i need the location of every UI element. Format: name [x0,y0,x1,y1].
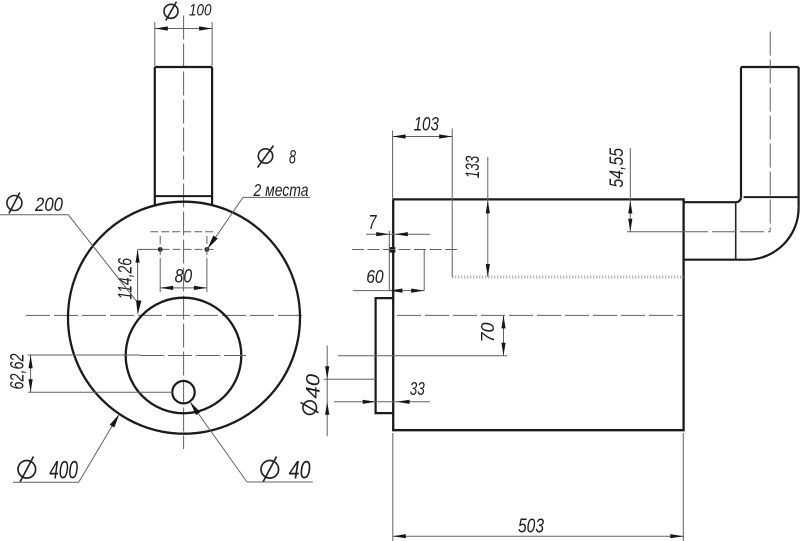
centerline vertical of left view [183,16,185,450]
svg-text:80: 80 [175,267,193,288]
vertical pipe top edge [741,66,799,68]
svg-text:40: 40 [289,456,311,484]
elbow centerline horizontal [684,231,770,233]
dimension D100 extension lines [154,22,156,66]
elbow outer arc [747,208,799,260]
flange hole square [389,247,395,253]
dimension 54.55 [629,148,631,232]
dimension 80 line [160,287,207,289]
svg-text:62,62: 62,62 [8,353,29,389]
boss flange side view [376,298,394,413]
boss circle D200 [126,298,242,414]
dimension 33 arrows [363,400,376,404]
holes D8 (2 places) [158,247,163,252]
svg-text:400: 400 [49,456,78,484]
leader D40 left view [247,481,313,483]
dimension 62.62 extension lines [28,354,140,356]
extension line 54.55 bottom [627,231,684,233]
svg-text:100: 100 [189,2,212,20]
body big circle D400 [68,202,300,434]
dimension 60 [353,290,424,292]
svg-text:40: 40 [304,374,325,399]
dimension 62.62 line [30,355,32,392]
extension line hole to 60 [388,231,390,291]
leader D200 [0,214,68,216]
top pipe weld seam [155,195,212,197]
label D40 right view rotated [301,374,325,415]
dimension 7 [366,233,430,235]
flange hole axis dashed [352,249,460,251]
dimension 103 [392,131,394,200]
body outline [393,199,684,430]
stub weld seam [735,202,737,260]
vertical pipe left edge [740,67,742,197]
elbow centerline vertical [769,32,771,232]
svg-text:70: 70 [478,323,498,343]
svg-text:103: 103 [414,115,440,136]
leader D400 [13,481,79,483]
label D400 [18,457,36,483]
svg-text:503: 503 [518,514,544,537]
svg-text:7: 7 [369,212,378,234]
outlet stub bottom edge [684,259,747,261]
svg-text:200: 200 [34,194,63,216]
label D200 [7,193,22,214]
label D40 left view [261,457,279,483]
dimension 133 [487,157,489,277]
label D100 [164,2,178,21]
svg-text:133: 133 [463,155,484,178]
dimension D100 line [155,28,212,30]
outlet stub top edge with fillet [684,197,741,202]
centerline horizontal of big circle [26,314,304,316]
svg-text:8: 8 [289,147,296,168]
svg-text:60: 60 [366,267,384,287]
svg-text:33: 33 [410,379,425,399]
dimension 114.26 line [137,250,139,302]
top pipe left side [154,67,156,205]
top pipe right side [211,67,213,204]
vertical pipe right edge [797,67,799,208]
holes crosshair dashes [150,231,213,233]
dimension D40 right view line [326,346,328,437]
dimension D40 right view extension lines [324,378,376,380]
leader 2 places [209,197,243,247]
dimension 70 [338,355,507,357]
top pipe top edge [155,66,212,68]
body centerline right view [397,314,683,316]
inlet hole circle D40 [172,381,194,403]
hidden internal pipe dotted line [452,275,683,278]
label D8 [258,146,274,168]
dimension 80 extension lines [159,259,161,292]
pipe weld seam horizontal [744,196,799,198]
dimension 503 [392,433,394,541]
svg-text:54,55: 54,55 [607,148,628,188]
